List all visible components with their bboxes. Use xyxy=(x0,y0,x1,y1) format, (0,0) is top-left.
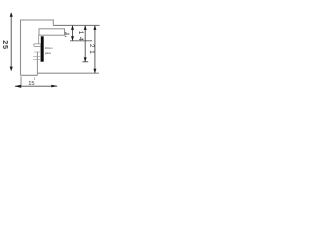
lip capsule xyxy=(34,44,41,47)
gasket line 2 xyxy=(33,55,41,57)
wall top edge xyxy=(20,19,54,21)
dimension D line xyxy=(72,26,74,41)
gasket line 1 xyxy=(34,51,41,53)
gasket line 3 xyxy=(33,59,41,61)
floor line left xyxy=(21,74,38,76)
dimension 15 line xyxy=(15,85,57,87)
dimension C top arrow xyxy=(93,25,96,30)
svg-text:25: 25 xyxy=(1,40,10,50)
dimension 15 short extension xyxy=(34,77,36,80)
small dim mark vertical xyxy=(65,32,67,35)
glass-side vertical xyxy=(40,44,42,62)
dimension 15 left arrow xyxy=(14,85,21,88)
svg-text:10mm: 10mm xyxy=(45,46,53,50)
dimension B bottom tick xyxy=(82,61,88,63)
jaw lower vertical xyxy=(36,52,38,75)
dimension D bottom arrow xyxy=(71,36,74,41)
dimension 25 top arrow xyxy=(10,12,13,16)
svg-text:glass: glass xyxy=(45,51,52,55)
wall left edge xyxy=(20,20,22,76)
dimension C bottom arrow xyxy=(93,69,96,74)
dimension B top arrow xyxy=(84,25,87,30)
dimension B bottom arrow xyxy=(84,57,87,62)
dimension C line xyxy=(94,26,96,73)
dimension B line xyxy=(84,26,86,62)
glass panel xyxy=(41,36,44,61)
svg-text:15: 15 xyxy=(28,81,34,87)
small dim mark horizontal xyxy=(66,33,69,35)
top stem xyxy=(52,20,54,25)
top reference line xyxy=(53,24,99,26)
dimension D top arrow xyxy=(71,25,74,30)
jaw upper vertical xyxy=(38,35,40,44)
top rail rectangle xyxy=(39,29,65,35)
svg-text:14: 14 xyxy=(77,31,84,44)
tick line mid xyxy=(70,40,92,42)
dimension 15 extension line xyxy=(20,77,22,88)
base line right xyxy=(37,72,99,74)
small dim dot xyxy=(65,36,66,37)
svg-text:21: 21 xyxy=(88,44,95,57)
dimension 25 line xyxy=(10,13,12,71)
dimension 25 bottom arrow xyxy=(10,67,13,71)
dimension 15 right arrow xyxy=(51,85,57,88)
